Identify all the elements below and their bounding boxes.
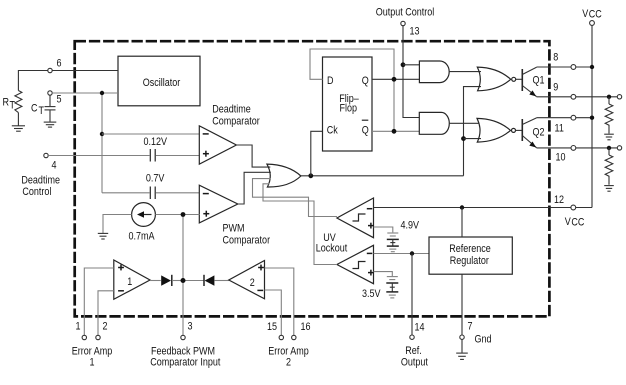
svg-text:Comparator: Comparator (223, 235, 271, 247)
wire pin12 row to terminal (550, 207, 571, 209)
pin 9 terminal (553, 82, 576, 100)
ground under R load 1 (604, 134, 614, 140)
svg-text:15: 15 (267, 321, 277, 333)
pin 12 terminal (554, 194, 576, 209)
transistor Q2 (522, 118, 545, 148)
oscillator box (118, 56, 200, 106)
wire Q output to AND1 (372, 78, 419, 80)
svg-text:Gnd: Gnd (475, 334, 492, 346)
wire OR output to flip-flop Ck (311, 131, 323, 176)
wire pin5 to oscillator (52, 92, 118, 94)
wire AND2 output to NOR2 (449, 122, 479, 124)
pin 10 terminal (556, 146, 576, 164)
op-amp PWM comparator (199, 185, 238, 223)
pin 8 terminal (553, 52, 576, 70)
svg-text:7: 7 (468, 321, 473, 333)
svg-text:V: V (582, 8, 588, 20)
node pin11 VCC (590, 116, 594, 120)
wire Q1 collector to pin 8 (537, 66, 572, 68)
AND gate 1 (419, 61, 449, 83)
svg-text:Comparator Input: Comparator Input (150, 357, 220, 369)
svg-text:16: 16 (301, 321, 311, 333)
svg-text:2: 2 (250, 277, 255, 289)
wire UV A output to OR (253, 179, 338, 217)
wire EA1 output to diode D1 (150, 280, 161, 282)
wire EA2 minus to pin 15 (265, 290, 282, 335)
capacitor 0.12V (150, 149, 155, 162)
svg-text:4.9V: 4.9V (401, 220, 420, 232)
svg-text:Deadtime: Deadtime (212, 104, 251, 116)
svg-text:Ref.: Ref. (405, 345, 422, 357)
ground under CT (44, 122, 57, 127)
VCC top terminal (590, 21, 595, 26)
wire OR column to NOR2 bottom input (464, 138, 482, 140)
label CT (31, 103, 44, 118)
svg-text:V: V (565, 216, 571, 228)
pin 5 terminal (48, 91, 62, 106)
wire pin9 to load resistor (576, 96, 618, 98)
wire pin5 down to CT (49, 95, 51, 106)
svg-text:1: 1 (76, 321, 81, 333)
wire D2 to EA2 output (215, 280, 229, 282)
resistor R load 1 (605, 97, 613, 134)
wire EA2 plus to pin 16 (265, 268, 294, 335)
svg-text:13: 13 (410, 26, 420, 38)
svg-text:1: 1 (127, 276, 132, 288)
svg-text:12: 12 (554, 194, 564, 206)
wire pin6 to RT (18, 71, 47, 91)
wire pin4 to 0.12V capacitor (48, 155, 149, 157)
pin 16 terminal (292, 321, 311, 339)
battery reference 4.9V (387, 233, 399, 252)
wire 0.12V cap to deadtime comparator plus (156, 155, 200, 157)
svg-text:2: 2 (103, 321, 108, 333)
svg-text:Q: Q (362, 125, 369, 137)
svg-text:4: 4 (52, 160, 57, 172)
wire Q2 emitter to pin 10 (537, 147, 572, 149)
wire deadtime comparator output to OR (236, 145, 270, 167)
label Feedback PWM Comparator Input (150, 346, 220, 369)
node OR column to NOR2 (461, 136, 466, 141)
svg-text:Flop: Flop (340, 103, 358, 115)
svg-text:Regulator: Regulator (450, 255, 490, 267)
wire pin12 to VCC rail (576, 207, 592, 209)
svg-text:Reference: Reference (449, 243, 491, 255)
svg-text:PWM: PWM (223, 223, 245, 235)
wire sawtooth vertical (101, 93, 103, 193)
wire D1 to feedback node (172, 280, 183, 282)
svg-text:R: R (3, 97, 10, 109)
diode D2 (204, 275, 214, 286)
pin 1 terminal (76, 321, 87, 340)
pin 13 terminal (401, 21, 420, 38)
wire to deadtime comparator minus (102, 133, 200, 135)
svg-text:Deadtime: Deadtime (21, 175, 60, 187)
svg-text:9: 9 (553, 82, 558, 94)
svg-text:C: C (31, 103, 38, 115)
svg-text:CC: CC (571, 217, 584, 229)
AND gate 2 (419, 112, 449, 134)
node pin9 resistor junction (607, 95, 611, 99)
comparator UV lockout A (337, 198, 374, 238)
svg-text:8: 8 (553, 52, 558, 64)
svg-text:Q: Q (362, 75, 369, 87)
NOR gate 2 (477, 118, 516, 142)
node feedback diode junction (181, 278, 186, 283)
op-amp error amp 1 (114, 260, 150, 299)
wire pin11 to VCC rail (576, 117, 592, 119)
label VCC pin12 (565, 216, 585, 228)
svg-text:3.5V: 3.5V (362, 288, 381, 300)
label Error Amp 2 (268, 346, 309, 369)
wire UV A plus to 4.9V reference (374, 227, 393, 232)
wire pin7 to ground (461, 339, 463, 352)
label VCC top (582, 8, 602, 20)
wire Q2 collector to pin 11 (537, 117, 572, 119)
wire AND1 output to NOR1 (449, 71, 481, 73)
node feedback junction (181, 212, 186, 217)
label Deadtime Comparator (212, 104, 260, 128)
svg-text:Control: Control (22, 186, 51, 198)
OR gate (4-input) (267, 164, 301, 187)
resistor R load 2 (605, 148, 613, 185)
capacitor 0.7V (150, 187, 155, 200)
label UV Lockout (316, 232, 348, 255)
svg-text:Output: Output (401, 357, 428, 369)
terminal circle pin10 external (617, 146, 621, 150)
flip-flop box (323, 57, 373, 151)
wire feedback vertical to pin 3 (182, 215, 184, 336)
wire NOR1 to Q1 base (516, 78, 523, 80)
node OR output junction (308, 173, 313, 178)
wire Q-bar output to AND2 (372, 130, 419, 132)
wire OR output to NOR column (301, 175, 464, 177)
node on Q-bar line (392, 129, 397, 134)
pin 7 terminal (460, 321, 473, 340)
wire 0.7V cap to PWM comparator minus (156, 192, 200, 194)
op-amp error amp 2 (229, 261, 265, 299)
wire current source to PWM comparator plus (155, 214, 199, 216)
comparator UV lockout B (337, 245, 374, 283)
svg-text:1: 1 (89, 357, 94, 369)
wire PWM comparator output to OR (238, 172, 271, 204)
svg-text:0.7mA: 0.7mA (129, 231, 155, 243)
wire sawtooth to 0.7V capacitor (102, 192, 150, 194)
pin 15 terminal (267, 321, 283, 339)
svg-text:0.12V: 0.12V (144, 136, 168, 148)
wire feedback node to diode D2 (183, 280, 204, 282)
node pin14 reference output (410, 251, 414, 255)
label Deadtime Control (21, 175, 60, 198)
reference regulator box (429, 237, 512, 274)
node pin10 resistor junction (607, 146, 611, 150)
wire VCC rail (591, 25, 593, 207)
node pin8 VCC (590, 65, 594, 69)
svg-text:Ck: Ck (327, 125, 339, 137)
diode D1 (161, 275, 172, 286)
label PWM Comparator (223, 223, 271, 247)
svg-text:0.7V: 0.7V (146, 173, 165, 185)
pin 14 terminal (410, 322, 425, 340)
wire Q1 emitter to pin 9 (537, 96, 572, 98)
battery reference 3.5V (386, 277, 398, 298)
wire UV B minus to reference node (374, 253, 430, 255)
wire pin13 output control vertical (403, 26, 419, 118)
pin 6 terminal (48, 58, 62, 73)
svg-text:5: 5 (57, 94, 62, 106)
node sawtooth junction on pin5 wire (100, 91, 104, 95)
wire pin10 to load resistor 2 (576, 147, 618, 149)
svg-text:T: T (10, 100, 16, 112)
svg-text:Output Control: Output Control (376, 7, 435, 19)
label Error Amp 1 (72, 346, 113, 369)
label RT (3, 97, 16, 112)
ground under R load 2 (604, 186, 614, 192)
svg-text:11: 11 (555, 123, 565, 135)
node deadtime minus branch (100, 132, 104, 136)
transistor Q1 (522, 67, 545, 96)
capacitor CT (45, 107, 56, 122)
terminal circle pin9 external (617, 95, 621, 99)
wire D loop from Q-bar over the top (310, 49, 394, 131)
node on Q line (392, 77, 397, 82)
current source 0.7mA (132, 203, 156, 227)
ground pin 7 (456, 353, 468, 359)
svg-text:14: 14 (415, 322, 425, 334)
ground under current source (98, 233, 108, 239)
resistor RT (15, 91, 22, 126)
wire OR column vertical (464, 87, 482, 176)
svg-text:Q1: Q1 (533, 75, 545, 87)
wire reference regulator to pin 7 (461, 274, 463, 335)
IC dashed border (75, 41, 550, 316)
wire UV A minus to pin 12 row (374, 207, 550, 209)
svg-text:Oscillator: Oscillator (143, 77, 181, 89)
node output control to AND1 (401, 62, 406, 67)
svg-text:Q2: Q2 (533, 127, 545, 139)
svg-text:Lockout: Lockout (316, 243, 348, 255)
svg-text:CC: CC (589, 9, 602, 21)
svg-text:2: 2 (286, 357, 291, 369)
wire reference output to pin 14 (411, 254, 413, 336)
label Ref. Output (401, 345, 428, 369)
svg-text:D: D (327, 75, 334, 87)
svg-text:6: 6 (57, 58, 62, 70)
svg-text:T: T (39, 105, 45, 117)
svg-text:10: 10 (556, 152, 566, 164)
pin 4 terminal (44, 153, 57, 171)
wire EA1 minus to pin 2 (98, 291, 114, 336)
svg-text:Comparator: Comparator (212, 116, 260, 128)
wire UV B plus to 3.5V reference (374, 272, 393, 276)
node reference regulator VCC tap (460, 205, 464, 209)
svg-text:3: 3 (188, 321, 193, 333)
wire pin8 to VCC rail (576, 66, 592, 68)
wire UV B output to OR (263, 184, 337, 265)
NOR gate 1 (477, 67, 515, 91)
wire NOR2 to Q2 base (516, 129, 523, 131)
wire pin6 to oscillator (52, 70, 118, 72)
ground under RT (12, 126, 25, 131)
wire VCC tap to reference regulator (461, 208, 463, 238)
pin 3 terminal (181, 321, 193, 340)
op-amp deadtime comparator (199, 126, 236, 164)
pin 11 terminal (555, 115, 576, 134)
pin 2 terminal (96, 321, 108, 340)
wire EA1 plus to pin 1 (84, 268, 114, 335)
wire current source to ground (103, 215, 132, 234)
wire output control to AND1 top input (403, 64, 419, 66)
